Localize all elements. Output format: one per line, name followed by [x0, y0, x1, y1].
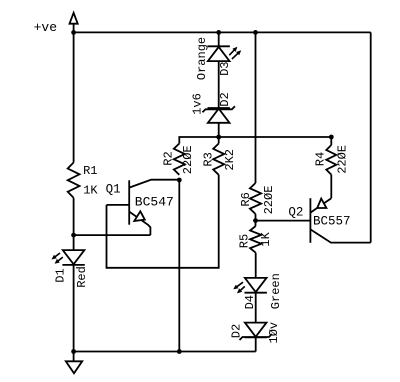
wire top rail to D3 [218, 32, 220, 46]
svg-text:1K: 1K [259, 231, 273, 246]
svg-text:2K2: 2K2 [223, 149, 237, 171]
zener bar of D5 [240, 334, 272, 340]
svg-text:R5: R5 [238, 234, 252, 248]
svg-text:BC557: BC557 [313, 214, 351, 228]
resistor R4 [326, 145, 336, 175]
wire Q1 collector node to bottom rail [178, 181, 180, 352]
junction node R1 / D1 / Q1 emitter [71, 233, 76, 238]
svg-text:D4: D4 [243, 295, 257, 309]
svg-text:Green: Green [269, 273, 283, 309]
junction node bottom rail / ground [71, 349, 76, 354]
svg-text:D1: D1 [54, 268, 68, 282]
resistor R5 [250, 226, 261, 253]
svg-text:D2: D2 [230, 324, 244, 338]
wire R5 to D4 [255, 253, 257, 278]
resistor R1 [68, 163, 80, 198]
svg-text:R3: R3 [202, 152, 216, 166]
svg-text:D3: D3 [218, 61, 232, 75]
Q1 emitter arrow [134, 211, 145, 221]
svg-text:22ØE: 22ØE [262, 186, 276, 215]
junction node R6 / R5 / Q2 base [253, 218, 258, 223]
wire mid rail [179, 137, 331, 144]
transistor Q2 base bar [309, 198, 311, 243]
resistor R6 [250, 183, 261, 214]
wire R6 to R5 [255, 214, 257, 226]
svg-text:Orange: Orange [195, 37, 209, 80]
wire R4 to Q2 emitter [330, 175, 332, 199]
wire top rail to R6 [255, 32, 257, 183]
wire Q1 base to R3 bottom loop [107, 175, 219, 268]
zener diode D5 (10v) [245, 323, 267, 337]
zener bar of D2 [203, 106, 235, 112]
resistor R3 [213, 144, 224, 175]
svg-text:1v6: 1v6 [191, 93, 205, 115]
wire left rail upper [73, 32, 75, 162]
junction node top rail / R6 column [253, 30, 258, 35]
junction node bottom rail / collector column [177, 349, 182, 354]
Q1 emitter lead [129, 212, 150, 236]
LED D4 emission arrows [235, 282, 243, 288]
wire right rail [370, 32, 372, 242]
svg-text:R6: R6 [239, 192, 253, 206]
junction node R2 / Q1 collector [177, 178, 182, 183]
wire D4 to D5 [255, 293, 257, 323]
resistor R2 [174, 144, 185, 175]
Q2 emitter arrow [317, 199, 326, 208]
wire D2 to R3 [218, 123, 220, 144]
LED D1 emission arrows [53, 253, 60, 258]
wire bottom rail [74, 351, 256, 353]
wire D1 node to Q1 emitter [74, 234, 151, 236]
wire node to Q2 base [256, 220, 311, 222]
svg-text:1Øv: 1Øv [267, 322, 281, 344]
svg-text:Q1: Q1 [106, 183, 121, 197]
wire top rail [74, 31, 371, 33]
wire D1 to bottom rail [73, 265, 75, 352]
svg-text:R1: R1 [83, 164, 97, 178]
Q1 collector lead [129, 180, 179, 188]
junction node top rail / D3 [216, 30, 221, 35]
LED D3 (Orange) [208, 47, 230, 61]
LED D1 (Red) [63, 250, 85, 264]
wire D5 to bottom rail [255, 337, 257, 352]
svg-text:Q2: Q2 [288, 205, 303, 219]
Q2 collector lead [310, 229, 370, 242]
LED D3 emission arrows [229, 48, 236, 55]
svg-text:D2: D2 [218, 92, 232, 106]
wire R1 to D1 [73, 198, 75, 250]
svg-text:+ve: +ve [34, 20, 57, 35]
junction node mid rail / R4 [329, 135, 334, 140]
+ve supply arrow [70, 13, 78, 24]
junction node mid rail / D2-R3 [216, 135, 221, 140]
junction node +ve rail [71, 30, 76, 35]
LED D4 (Green) [245, 278, 267, 292]
ground symbol [73, 352, 75, 362]
wire mid rail to R4 [330, 137, 332, 145]
svg-text:R4: R4 [314, 152, 328, 166]
svg-text:1K: 1K [83, 184, 98, 198]
transistor Q1 base bar [128, 180, 130, 224]
zener diode D2 (1v6) [208, 109, 230, 123]
wire D3 to D2 [218, 61, 220, 109]
svg-text:22ØE: 22ØE [181, 145, 195, 174]
Q2 emitter lead [310, 198, 331, 212]
svg-text:22ØE: 22ØE [336, 145, 350, 174]
svg-text:Red: Red [75, 266, 89, 288]
svg-text:R2: R2 [162, 151, 176, 165]
svg-text:BC547: BC547 [135, 195, 174, 210]
Q1 base lead [107, 204, 130, 206]
